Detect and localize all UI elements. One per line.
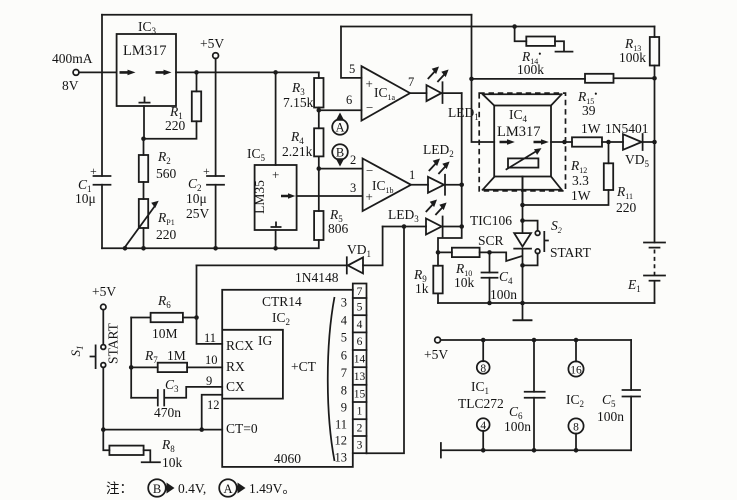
svg-text:100n: 100n xyxy=(504,419,531,434)
svg-text:6: 6 xyxy=(346,93,352,107)
wire ground rail xyxy=(102,240,319,251)
resistor R12 xyxy=(570,121,602,203)
switch S2 START xyxy=(523,218,592,265)
svg-text:2.21k: 2.21k xyxy=(282,144,313,159)
svg-text:10: 10 xyxy=(205,353,218,367)
svg-text:+5V: +5V xyxy=(424,347,448,362)
svg-text:+5V: +5V xyxy=(92,284,116,299)
svg-text:START: START xyxy=(106,322,121,364)
thyristor SCR TIC106 xyxy=(470,177,531,306)
resistor R2 xyxy=(139,139,177,199)
svg-text:2: 2 xyxy=(357,423,363,435)
diode VD5 1N5401 xyxy=(602,121,657,169)
svg-text:1: 1 xyxy=(357,406,363,418)
op IC2 power pins xyxy=(566,340,584,450)
capacitor C4 xyxy=(482,252,518,305)
resistor R3 xyxy=(283,72,324,110)
svg-text:−: − xyxy=(366,163,373,178)
wire input to IC3 xyxy=(79,71,117,73)
resistor R1 xyxy=(141,72,201,141)
svg-text:1M: 1M xyxy=(167,348,186,363)
svg-text:470n: 470n xyxy=(154,405,181,420)
pin cells right xyxy=(353,284,367,454)
ground xyxy=(514,303,532,320)
wire bottom right rail xyxy=(438,302,655,304)
wire right rail E1 xyxy=(654,78,656,242)
wire pin5 feedback xyxy=(341,27,362,78)
svg-text:15: 15 xyxy=(354,389,366,401)
svg-text:8: 8 xyxy=(341,383,347,397)
svg-text:25V: 25V xyxy=(186,206,210,221)
wire S1 column xyxy=(129,318,134,398)
svg-text:4: 4 xyxy=(480,420,486,432)
svg-text:3: 3 xyxy=(357,440,363,452)
svg-text:CTR14: CTR14 xyxy=(262,294,302,309)
resistor R8 xyxy=(103,430,182,470)
svg-text:39: 39 xyxy=(582,103,596,118)
svg-text:100k: 100k xyxy=(517,62,544,77)
svg-text:LM317: LM317 xyxy=(123,43,167,59)
capacitor C5 xyxy=(597,340,640,450)
resistor R14 with ground xyxy=(515,27,573,78)
svg-text:11: 11 xyxy=(204,331,216,345)
regulator IC3 LM317 xyxy=(117,19,176,106)
svg-text:16: 16 xyxy=(570,365,582,377)
svg-text:1W: 1W xyxy=(571,188,591,203)
svg-text:0.4V,: 0.4V, xyxy=(178,481,206,496)
op-amp IC1a xyxy=(346,62,414,121)
wire gnd rail bottom xyxy=(441,443,631,458)
svg-text:IG: IG xyxy=(258,333,272,348)
diode VD1 1N4148 xyxy=(197,227,383,286)
svg-text:−: − xyxy=(366,100,373,115)
node +5V terminal xyxy=(200,36,224,58)
wire LED cathode bus xyxy=(438,93,464,252)
svg-text:13: 13 xyxy=(354,371,366,383)
svg-text:9: 9 xyxy=(206,374,212,388)
svg-text:1: 1 xyxy=(409,168,415,182)
svg-text:220: 220 xyxy=(616,200,637,215)
svg-text:8V: 8V xyxy=(62,78,79,93)
svg-text:+CT: +CT xyxy=(291,359,317,374)
svg-text:B: B xyxy=(153,482,161,496)
svg-text:TLC272: TLC272 xyxy=(458,396,504,411)
svg-text:RX: RX xyxy=(226,359,245,374)
resistor R6 xyxy=(131,293,199,341)
svg-text:100n: 100n xyxy=(490,287,517,302)
wire pin3 output drop xyxy=(367,227,405,454)
svg-text:4: 4 xyxy=(341,313,348,327)
svg-text:14: 14 xyxy=(354,354,366,366)
svg-text:SCR: SCR xyxy=(478,233,504,248)
wire IC3 adj pin xyxy=(143,106,145,139)
svg-text:LED1: LED1 xyxy=(448,105,479,122)
svg-text:1W: 1W xyxy=(581,121,601,136)
resistor R7 xyxy=(131,348,222,372)
svg-text:5: 5 xyxy=(349,62,355,76)
svg-text:4060: 4060 xyxy=(274,451,301,466)
regulator IC4 LM317 with heatsink xyxy=(479,93,565,191)
resistor R10 xyxy=(438,248,492,290)
LED3 xyxy=(383,200,464,237)
svg-text:1.49V。: 1.49V。 xyxy=(249,481,296,496)
svg-text:220: 220 xyxy=(156,227,177,242)
op-amp IC1b xyxy=(350,153,415,211)
svg-text:+: + xyxy=(90,164,97,178)
node B marker xyxy=(332,144,348,166)
sensor IC5 LM35 xyxy=(247,146,297,230)
wire IC4 output xyxy=(551,140,572,145)
svg-text:12: 12 xyxy=(335,433,348,447)
svg-text:1N4148: 1N4148 xyxy=(295,270,339,285)
svg-text:7: 7 xyxy=(357,286,363,298)
LED1 xyxy=(410,67,479,123)
svg-text:560: 560 xyxy=(156,166,177,181)
wire +5V rail bottom xyxy=(441,338,632,343)
op IC2 inner IG box xyxy=(222,330,283,399)
svg-text:A: A xyxy=(335,121,344,135)
input terminal 400mA 8V xyxy=(52,51,93,93)
wire SCR gate xyxy=(490,252,522,261)
note annotation xyxy=(106,479,296,497)
svg-text:3: 3 xyxy=(341,295,347,309)
LED2 xyxy=(411,142,462,195)
svg-text:2: 2 xyxy=(350,153,356,167)
svg-text:806: 806 xyxy=(328,221,349,236)
svg-text:10M: 10M xyxy=(152,326,178,341)
wire pin3 from LM35 xyxy=(297,195,363,197)
capacitor C6 xyxy=(504,340,545,450)
potentiometer RP1 xyxy=(125,199,177,248)
svg-text:CT=0: CT=0 xyxy=(226,421,258,436)
svg-text:4: 4 xyxy=(357,319,363,331)
svg-text:CX: CX xyxy=(226,379,245,394)
wire R15 node column xyxy=(469,15,494,142)
svg-text:LM317: LM317 xyxy=(497,124,541,140)
svg-text:+5V: +5V xyxy=(200,36,224,51)
svg-text:100n: 100n xyxy=(597,409,624,424)
svg-text:3.3: 3.3 xyxy=(572,173,589,188)
wire +5V to C2 xyxy=(215,59,217,177)
svg-text:5: 5 xyxy=(357,302,363,314)
wire R6 node to VD1 and pin11 xyxy=(197,265,223,344)
wire LM35 vcc xyxy=(275,72,277,165)
svg-text:400mA: 400mA xyxy=(52,51,93,66)
wire LM35 gnd xyxy=(275,230,277,248)
svg-text:+: + xyxy=(203,164,210,178)
svg-text:8: 8 xyxy=(480,363,486,375)
svg-text:100k: 100k xyxy=(619,50,646,65)
svg-text:6: 6 xyxy=(341,348,347,362)
svg-text:+: + xyxy=(366,76,373,91)
wire pin2 xyxy=(317,166,363,171)
svg-text:7: 7 xyxy=(341,366,347,380)
wire IC3 output rail xyxy=(176,70,319,75)
battery E1 xyxy=(627,243,665,304)
svg-text:1N5401: 1N5401 xyxy=(605,121,649,136)
svg-text:7: 7 xyxy=(408,75,414,89)
svg-text:7.15k: 7.15k xyxy=(283,95,314,110)
svg-text:12: 12 xyxy=(207,398,220,412)
wire pin12 xyxy=(202,395,223,430)
svg-text:+: + xyxy=(272,167,279,182)
svg-text:10μ: 10μ xyxy=(186,191,207,206)
svg-text:START: START xyxy=(550,245,592,260)
resistor R13 xyxy=(619,27,659,81)
wire IC4 bottom pin xyxy=(522,177,524,206)
svg-text:10k: 10k xyxy=(454,275,475,290)
resistor R9 xyxy=(413,250,443,303)
op IC1 TLC272 power pins xyxy=(458,340,504,450)
svg-text:5: 5 xyxy=(341,330,347,344)
svg-text:220: 220 xyxy=(165,118,186,133)
wire feedback top line xyxy=(341,24,655,29)
switch S1 START xyxy=(68,284,121,430)
pin group bracket xyxy=(328,297,335,461)
svg-text:6: 6 xyxy=(357,336,363,348)
svg-text:10μ: 10μ xyxy=(75,191,96,206)
svg-text:10k: 10k xyxy=(162,455,183,470)
capacitor C3 xyxy=(131,377,222,420)
svg-text:8: 8 xyxy=(573,422,579,434)
svg-text:1k: 1k xyxy=(415,281,429,296)
svg-text:LED2: LED2 xyxy=(423,142,454,159)
svg-text:13: 13 xyxy=(335,450,348,464)
resistor R11 xyxy=(604,142,637,215)
svg-text:注：: 注： xyxy=(106,481,133,496)
svg-text:B: B xyxy=(336,146,344,160)
svg-text:A: A xyxy=(223,482,232,496)
pin numbers inner xyxy=(335,295,348,464)
wire anode R11 link xyxy=(523,190,609,205)
wire left rail xyxy=(101,15,103,249)
svg-text:9: 9 xyxy=(341,400,347,414)
svg-text:RCX: RCX xyxy=(226,338,254,353)
pin number labels left xyxy=(204,331,220,412)
op IC2 CTR14 4060 box xyxy=(222,290,353,467)
node +5V terminal bottom xyxy=(424,337,448,362)
svg-text:LM35: LM35 xyxy=(252,180,267,214)
svg-text:TIC106: TIC106 xyxy=(470,213,512,228)
resistor R5 xyxy=(314,169,348,240)
capacitor C1 xyxy=(75,164,111,206)
wire top border xyxy=(102,14,472,16)
capacitor C2 xyxy=(186,164,224,248)
svg-text:3: 3 xyxy=(350,181,356,195)
resistor R4 xyxy=(282,110,324,168)
wire CT=0 line xyxy=(101,427,222,432)
resistor R15 xyxy=(472,74,655,118)
wire pin6 xyxy=(317,108,362,113)
node A marker xyxy=(332,113,348,135)
svg-text:11: 11 xyxy=(335,417,347,431)
